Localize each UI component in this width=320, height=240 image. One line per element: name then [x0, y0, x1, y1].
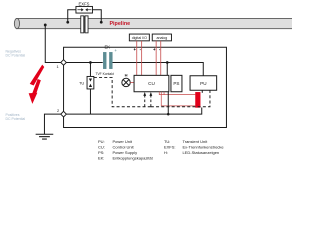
svg-text:Control Unit: Control Unit — [112, 144, 134, 149]
svg-text:EXFS:: EXFS: — [164, 144, 176, 149]
node 1 diamond — [61, 60, 67, 66]
red wires CU to accumulator — [159, 92, 195, 106]
ground — [36, 134, 54, 139]
red wire analog + — [155, 41, 157, 75]
svg-text:CU: CU — [148, 81, 155, 86]
wire node2 to ground — [44, 114, 60, 134]
digital I/O box — [129, 34, 149, 41]
svg-text:PU: PU — [200, 81, 206, 86]
enclosure outer box wire loop — [64, 47, 227, 127]
wire PU to accumulator — [201, 90, 203, 93]
wire W1 junction down to CU top — [166, 62, 168, 75]
insulating joint in pipeline — [81, 16, 88, 33]
svg-text:Transient Unit: Transient Unit — [182, 139, 208, 144]
polarity labels — [133, 47, 160, 52]
svg-text:H:: H: — [164, 150, 168, 155]
wire node1-node2 — [63, 65, 65, 111]
svg-text:TU:: TU: — [164, 139, 170, 144]
svg-text:LED-Statusanzeigen: LED-Statusanzeigen — [182, 150, 219, 155]
wire TU branch — [89, 62, 91, 76]
svg-text:Ex-Trennfunkenstrecke: Ex-Trennfunkenstrecke — [182, 144, 224, 149]
wire EXFS right lead — [92, 10, 101, 23]
wire PS to bottom rail — [167, 92, 169, 114]
power unit PU box — [190, 76, 217, 91]
red wire digital + — [136, 41, 138, 75]
wire node2 to accumulator (bottom rail) — [66, 107, 201, 114]
svg-text:analog: analog — [156, 36, 167, 40]
svg-text:digital I/O: digital I/O — [132, 36, 147, 40]
legend right column — [164, 139, 224, 155]
junction W1 at CU branch — [166, 61, 169, 64]
wire EXFS left lead — [68, 10, 76, 23]
svg-text:EK:: EK: — [98, 155, 104, 160]
svg-text:PS: PS — [173, 81, 179, 86]
junction W1/TU tap — [89, 61, 92, 64]
svg-text:+: + — [114, 48, 117, 53]
red wire lamp to CU — [130, 81, 134, 83]
dashed arrow into CU bottom (left) — [144, 95, 146, 107]
capacitor EK — [103, 52, 113, 69]
svg-text:Pipeline: Pipeline — [109, 21, 130, 27]
red wire analog - — [160, 41, 162, 75]
junction bottom rail — [167, 113, 170, 116]
svg-text:EK: EK — [104, 44, 110, 49]
svg-text:EXFS: EXFS — [78, 2, 89, 7]
svg-text:CU:: CU: — [98, 144, 105, 149]
wire pipe tap to node 1 — [45, 25, 60, 63]
accumulator red bar — [195, 92, 200, 108]
svg-text:Entkopplungskapazität: Entkopplungskapazität — [112, 155, 153, 160]
legend left column — [98, 139, 154, 161]
dashed arrow into CU bottom (right) — [150, 95, 152, 107]
node 2 diamond — [61, 111, 67, 117]
junction pipe tap — [44, 24, 47, 27]
svg-text:Power Unit: Power Unit — [112, 139, 132, 144]
spark gap EXFS box — [76, 6, 93, 13]
junction EXFS right on pipe — [100, 21, 103, 24]
svg-text:PU:: PU: — [98, 139, 105, 144]
wire W1 node1 to PU (through EK) — [66, 61, 102, 63]
control unit CU box — [134, 75, 169, 91]
analog box — [152, 34, 171, 41]
svg-text:TU: TU — [79, 80, 84, 85]
dashed wire TVF contact to CU — [94, 77, 151, 106]
svg-text:DC Potential: DC Potential — [5, 54, 25, 58]
svg-text:H: H — [125, 72, 128, 77]
red wire digital - — [141, 41, 143, 75]
svg-text:Power Supply: Power Supply — [112, 150, 137, 155]
junction EXFS left on pipe — [66, 21, 69, 24]
lightning bolt — [29, 65, 45, 104]
power supply PS box — [171, 75, 182, 91]
dashed wire accumulator to PU — [151, 90, 210, 107]
svg-text:PS:: PS: — [98, 150, 104, 155]
svg-text:TVF Kontakt: TVF Kontakt — [95, 72, 113, 76]
svg-text:DC Potential: DC Potential — [5, 117, 25, 121]
transient unit TU — [87, 76, 94, 89]
pipeline (pipe body) — [14, 18, 292, 28]
